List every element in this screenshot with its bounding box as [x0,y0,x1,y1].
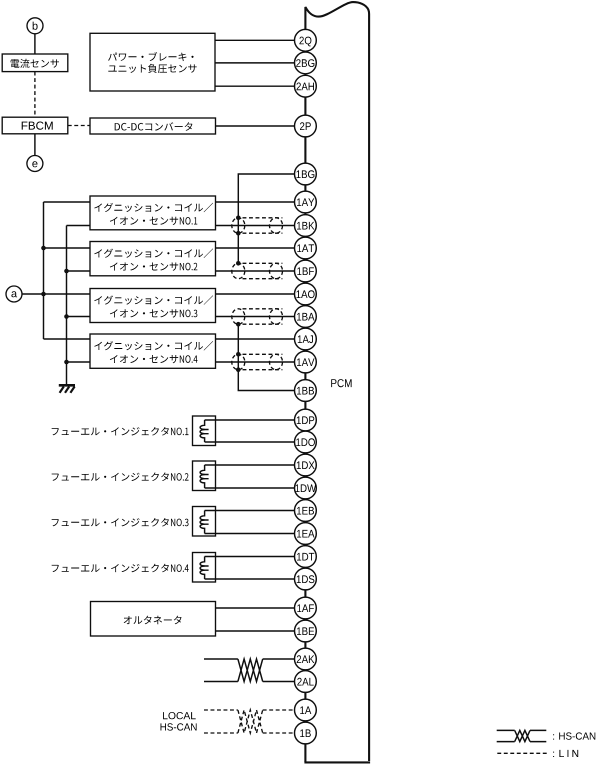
fuel injector NO.4 label [52,564,189,573]
pin 1AO [295,283,317,305]
pin 1EA [295,523,317,545]
shield symbol on 1BA wire [232,309,283,324]
pin 1DT [295,546,317,568]
wire: injector NO.4 to lower pin [205,578,295,580]
pin 1A [295,699,317,721]
wire: ignition coil NO.3 shielded line to pin [216,316,295,318]
drain wire: shields 1-2 to pin 1BG [238,174,294,263]
twisted pair dashed wires (LOCAL HS-CAN) to pins 1A/1B [204,710,295,733]
node e (connector circle e) [27,156,43,172]
wire: FBCM to node e [34,134,36,156]
pin 2AK [295,648,317,670]
pin 1AV [295,351,317,373]
legend: LIN text [553,752,554,757]
wire: ignition coil NO.4 left to ground bus B [67,361,91,363]
wire: ignition coil NO.1 left to bus A [44,201,91,203]
pin 2AH [295,75,317,97]
pin 1BK [295,215,317,237]
wire: injector NO.2 to lower pin [205,487,295,489]
shield symbol on 1AV wire [232,354,283,369]
ground symbol [59,385,75,393]
wire: DC-DC converter to pin 2P [216,125,295,127]
pin 2Q [295,29,317,51]
ignition coil / ion sensor NO.2 box [90,242,216,276]
power brake unit vacuum sensor box パワー・ブレーキ・ユニット負圧センサ [90,33,215,91]
pin 1BB [295,380,317,402]
wire: node a to bus A [22,293,44,295]
wire (dashed LIN): FBCM to DC-DC converter [68,125,90,127]
fuel injector NO.2 symbol [193,461,216,491]
wire: alternator to pin 1BE [216,630,295,632]
wire: ignition coil NO.3 signal to pin [216,293,295,295]
ignition coil / ion sensor NO.1 box [90,196,216,230]
pin 1DP [295,409,317,431]
node b (connector circle b) [27,18,43,34]
bus A vertical wire [43,202,45,339]
wire: ignition coil NO.1 shielded line to pin [216,225,295,227]
junction dot shield4 bottom [236,367,241,372]
pin 1DW [295,477,317,499]
wire: ignition coil NO.4 signal to pin [216,338,295,340]
legend: HS-CAN text [553,734,554,739]
fuel injector NO.4 symbol [193,553,216,583]
fuel injector NO.2 label [52,473,189,482]
wire: injector NO.3 to upper pin [205,510,295,512]
wire: ignition coil NO.2 shielded line to pin [216,270,295,272]
ignition coil / ion sensor NO.4 box [90,334,216,368]
fuel injector NO.3 symbol [193,507,216,537]
wire: injector NO.3 to lower pin [205,533,295,535]
legend: HS-CAN twisted pair symbol [497,730,547,741]
wire: injector NO.2 to upper pin [205,464,295,466]
twisted pair wires (HS-CAN) to pins 2AK/2AL [204,659,295,682]
shield symbol on 1BF wire [232,263,283,278]
node a (connector circle a) [6,286,22,302]
pin 2AL [295,671,317,693]
wire: injector NO.1 to lower pin [205,441,295,443]
pin 1BE [295,620,317,642]
alternator box オルタネータ [91,602,216,637]
junction dot bus B / coil 2 [64,269,69,274]
pin 1AY [295,191,317,213]
wire: ignition coil NO.2 left to ground bus B [67,270,91,272]
wire: ignition coil NO.2 signal to pin [216,247,295,249]
pin 1BA [295,306,317,328]
wire: sensor to pin 2BG [215,62,295,64]
wire: ignition coil NO.3 left to ground bus B [67,316,91,318]
wire: ignition coil NO.4 shielded line to pin [216,361,295,363]
DC-DC converter box DC-DCコンバータ [90,118,216,134]
PCM module box (torn-top rectangle) [304,2,370,762]
pin 2BG [295,52,317,74]
junction dot shield4 top [236,352,241,357]
junction dot shield2 top [236,261,241,266]
pin 1BG [295,163,317,185]
wire: sensor to pin 2Q [215,39,295,41]
LOCAL HS-CAN label [163,712,196,719]
wire: alternator to pin 1AF [216,607,295,609]
pin 1DS [295,568,317,590]
wire: ignition coil NO.3 left to bus A [44,293,91,295]
pin 1DO [295,431,317,453]
wire: sensor to pin 2AH [215,85,295,87]
wire: ignition coil NO.1 signal to pin [216,201,295,203]
junction dot bus A / coil 2 [41,246,46,251]
pin 2P [295,115,317,137]
wire: ignition coil NO.4 left to bus A [44,338,91,340]
pin 1AT [295,237,317,259]
wire (dashed LIN): current sensor to FBCM [34,72,36,118]
junction dot shield3 bottom [236,322,241,327]
junction dot shield1 top [236,216,241,221]
wire: ignition coil NO.1 left to ground bus B [67,225,91,227]
junction dot shield1 bottom [236,231,241,236]
PCM label [331,379,351,387]
pin 1EB [295,500,317,522]
FBCM box [2,117,68,134]
pin 1BF [295,260,317,282]
wire: injector NO.4 to upper pin [205,556,295,558]
pin 1AF [295,597,317,619]
drain wire: shields 3-4 to pin 1BB [238,324,294,390]
ignition coil / ion sensor NO.3 box [90,289,216,323]
pin 1B [295,722,317,744]
wire: node b to current sensor [34,34,36,54]
fuel injector NO.3 label [52,518,189,527]
wire: injector NO.1 to upper pin [205,419,295,421]
shield symbol on 1BK wire [232,218,283,233]
bus B (ground) vertical wire [66,226,68,386]
current sensor box 電流センサ [2,54,68,72]
fuel injector NO.1 label [52,427,189,436]
legend: LIN dashed line [497,752,547,754]
fuel injector NO.1 symbol [193,416,216,446]
wire: ignition coil NO.2 left to bus A [44,247,91,249]
pin 1AJ [295,328,317,350]
junction dot bus B / coil 3 [64,314,69,319]
pin 1DX [295,454,317,476]
junction dot bus B / coil 4 [64,360,69,365]
junction dot bus A / node a / coil 3 [41,292,46,297]
